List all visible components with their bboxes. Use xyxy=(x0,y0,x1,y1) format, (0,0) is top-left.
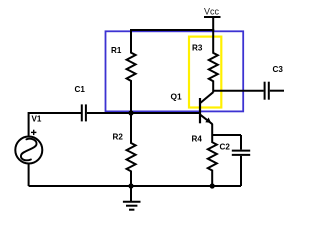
svg-text:C1: C1 xyxy=(75,85,86,94)
Vcc power symbol xyxy=(204,7,221,30)
junction: base node / R2 tap xyxy=(128,110,133,115)
svg-text:C2: C2 xyxy=(220,143,231,152)
source V1 xyxy=(15,115,42,164)
wire: C1 to Q1 base xyxy=(87,112,200,114)
svg-text:Vcc: Vcc xyxy=(204,7,220,17)
capacitor C1 xyxy=(75,85,86,121)
junction: R4 bottom on ground rail xyxy=(210,183,215,188)
svg-text:V1: V1 xyxy=(32,115,42,124)
svg-text:R1: R1 xyxy=(111,46,122,55)
resistor R4 xyxy=(192,135,217,186)
ground xyxy=(123,186,141,210)
svg-text:R4: R4 xyxy=(192,135,203,144)
capacitor C3 xyxy=(265,65,284,100)
wire: emitter node rail to C2 branch xyxy=(212,134,241,136)
wire: top rail from R1 to Vcc/R3 xyxy=(130,29,214,31)
resistor R3 xyxy=(192,30,218,93)
wire: C3 output stub xyxy=(270,90,284,92)
wire: V1 bottom lead xyxy=(28,163,30,186)
junction: R2 bottom on ground rail xyxy=(128,183,133,188)
resistor R1 xyxy=(111,30,136,113)
svg-text:C3: C3 xyxy=(273,65,284,74)
wire: ground rail (bottom) xyxy=(29,185,241,187)
transistor Q1 xyxy=(171,91,214,135)
wire: V1 top lead up to input node xyxy=(29,113,81,137)
capacitor C2 xyxy=(220,135,251,186)
highlight box around R3 (yellow) xyxy=(189,37,221,108)
svg-text:Q1: Q1 xyxy=(171,91,183,101)
svg-text:R2: R2 xyxy=(113,132,124,141)
selection box (blue) xyxy=(106,31,244,111)
wire: collector node to C3 xyxy=(213,90,263,92)
svg-text:R3: R3 xyxy=(192,43,203,52)
resistor R2 xyxy=(113,113,136,186)
